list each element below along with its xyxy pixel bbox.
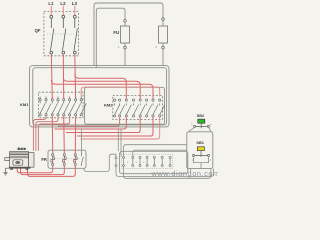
svg-text:QF: QF <box>35 28 41 33</box>
svg-text:FU: FU <box>113 30 119 35</box>
svg-text:L3: L3 <box>72 1 78 6</box>
svg-text:KM1: KM1 <box>20 102 29 107</box>
svg-text:L2: L2 <box>60 1 66 6</box>
svg-text:L1: L1 <box>48 1 54 6</box>
svg-text:SB1: SB1 <box>196 140 204 145</box>
svg-text:FR: FR <box>41 157 47 162</box>
svg-text:KM2: KM2 <box>104 102 113 107</box>
svg-text:SB2: SB2 <box>197 113 205 118</box>
svg-text:www.diangon.com: www.diangon.com <box>151 169 219 178</box>
